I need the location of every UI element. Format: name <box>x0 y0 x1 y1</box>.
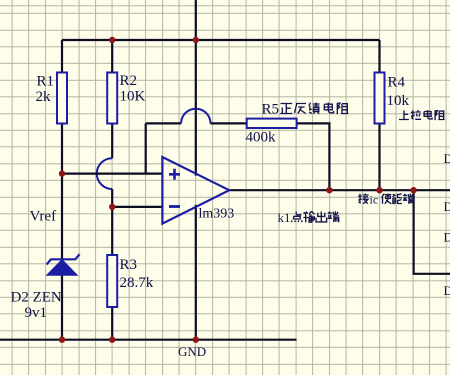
svg-text:R4: R4 <box>388 75 406 91</box>
wire feedback to R5 <box>211 122 247 124</box>
svg-text:400k: 400k <box>246 130 277 146</box>
junction dot ground R3 <box>109 337 115 343</box>
wire R4 column <box>378 40 380 190</box>
resistor R2 <box>107 73 117 124</box>
svg-text:R5: R5 <box>262 102 280 118</box>
resistor R4 <box>375 73 385 124</box>
wire comparator V+ supply column <box>195 0 197 176</box>
svg-text:D: D <box>444 283 450 298</box>
wire ground rail <box>0 339 297 341</box>
label R5 note: zheng fan kui dian zu <box>280 104 292 114</box>
wire enable branch down and right <box>414 190 450 274</box>
wire top rail <box>62 39 380 41</box>
svg-text:k1: k1 <box>278 210 291 225</box>
label R4 note: shang la dian zu <box>399 110 409 119</box>
wire - input <box>112 206 162 208</box>
svg-text:10K: 10K <box>120 89 146 105</box>
zener diode D2 triangle <box>47 260 76 275</box>
svg-text:28.7k: 28.7k <box>120 275 154 291</box>
wire output rail <box>229 189 450 191</box>
svg-text:D2 ZEN: D2 ZEN <box>11 290 62 306</box>
svg-text:9v1: 9v1 <box>25 305 48 321</box>
junction dot R2/R3 minus input <box>109 204 115 210</box>
resistor R1 <box>57 73 67 124</box>
wire comparator V- to ground column <box>195 205 197 340</box>
chinese labels drawn as strokes <box>280 103 444 223</box>
svg-text:R1: R1 <box>37 74 55 90</box>
junction dot Vref/R1 <box>59 170 65 176</box>
wire R2/R3 column upper <box>111 40 113 158</box>
svg-text:GND: GND <box>178 344 206 359</box>
wire Vref to + input <box>62 173 162 175</box>
junction dot ground zener <box>59 337 65 343</box>
junction dot ground V- <box>193 337 199 343</box>
svg-text:2k: 2k <box>36 89 52 105</box>
svg-text:Vref: Vref <box>30 209 57 225</box>
wire R5 to output node <box>297 123 330 190</box>
op-amp minus sign <box>169 205 180 208</box>
zener diode D2 cathode bar with hooks <box>47 254 80 264</box>
resistor R3 <box>107 255 117 307</box>
op-amp plus sign <box>169 169 180 180</box>
wire hop arc over supply column <box>181 109 210 124</box>
wire R1/zener column <box>61 40 63 340</box>
label output note: k1 dian shu chu duan <box>292 212 303 223</box>
svg-text:D: D <box>444 151 450 166</box>
svg-text:D: D <box>444 230 450 245</box>
svg-text:lm393: lm393 <box>199 207 235 222</box>
junction dot R4/output <box>376 187 382 193</box>
label enable note: jie ic shi neng duan <box>358 194 369 204</box>
svg-text:R3: R3 <box>120 257 138 273</box>
wire hop arc over Vref line <box>97 158 112 189</box>
wire feedback vertical <box>145 123 147 173</box>
svg-text:10k: 10k <box>387 93 410 109</box>
junction dot R5/output <box>326 187 332 193</box>
wire feedback horizontal left <box>146 122 181 124</box>
junction dot enable/output <box>410 187 416 193</box>
junction dot top supply <box>193 37 199 43</box>
svg-text:ic: ic <box>370 193 379 207</box>
svg-text:D: D <box>444 199 450 214</box>
junction dot top R2 <box>109 37 115 43</box>
op-amp U1 lm393 triangle <box>162 157 229 224</box>
wire R2/R3 column lower <box>111 189 113 340</box>
resistor R5 <box>247 119 297 128</box>
svg-text:R2: R2 <box>120 73 138 89</box>
